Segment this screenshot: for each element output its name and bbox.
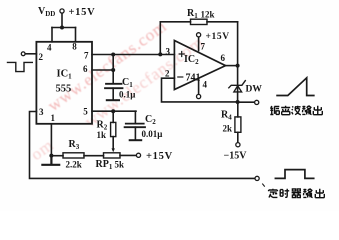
svg-text:4: 4 <box>203 80 208 90</box>
sawtooth output terminal <box>255 100 259 104</box>
sawtooth waveform symbol <box>277 78 314 96</box>
zener diode DW <box>229 81 246 92</box>
pin 4 terminal <box>197 94 201 98</box>
wire R1 left leg <box>159 22 161 55</box>
ground <box>42 156 59 165</box>
wire pin 4 of 741 <box>198 78 200 94</box>
node pin6 junction <box>111 68 115 72</box>
svg-text:+15V: +15V <box>69 7 96 18</box>
svg-text:2k: 2k <box>223 124 233 134</box>
capacitor C2 0.01u <box>125 111 145 140</box>
wire pin 5 <box>92 110 136 112</box>
svg-text:12k: 12k <box>201 10 215 20</box>
input terminal (trigger) <box>21 52 25 56</box>
wire R3 to RP1 <box>84 155 104 157</box>
wire R1 top left <box>160 21 190 23</box>
svg-text:4: 4 <box>47 43 52 53</box>
svg-text:3: 3 <box>166 47 171 57</box>
capacitor C1 0.1u <box>105 84 123 100</box>
resistor R1 12k <box>191 19 208 24</box>
node B junction (zener anode) <box>236 100 240 104</box>
wiper arrow of RP1 <box>112 137 115 153</box>
wire output node to zener <box>237 66 239 102</box>
wire VDD vertical <box>61 13 63 27</box>
negative pulse symbol (input waveform) <box>8 62 33 71</box>
wire pin 6 output <box>226 65 238 67</box>
svg-text:−15V: −15V <box>224 151 248 162</box>
wire junction to R3 <box>51 155 63 157</box>
svg-text:+15V: +15V <box>206 32 230 42</box>
svg-text:741: 741 <box>186 73 201 84</box>
resistor R2 1k <box>111 111 116 136</box>
-15V terminal <box>236 143 240 147</box>
+15V terminal (bottom) <box>136 153 140 157</box>
wire pin 7 to op-amp +input <box>92 54 174 56</box>
wire pin 2 input <box>25 53 36 55</box>
resistor R4 2k <box>235 102 241 142</box>
node pin1/R3 junction <box>49 154 53 158</box>
label sawtooth output (Chinese glyphs drawn as strokes) <box>270 106 322 115</box>
wire pin 6 <box>92 69 113 71</box>
wire pin 1 down <box>50 124 52 156</box>
wire pin 4 <box>51 28 53 42</box>
node pin5 junction <box>111 109 115 113</box>
svg-text:1k: 1k <box>97 130 107 140</box>
wire RP1 to +15V terminal <box>120 154 136 156</box>
svg-text:1: 1 <box>51 113 56 123</box>
node R1 tap on +input wire <box>158 52 162 56</box>
VDD terminal <box>60 9 64 13</box>
svg-text:5k: 5k <box>115 160 125 170</box>
svg-text:3: 3 <box>39 107 44 117</box>
svg-text:7: 7 <box>84 51 89 61</box>
+15V terminal (op-amp supply) <box>197 33 201 37</box>
svg-text:8: 8 <box>72 42 77 52</box>
pulse waveform symbol <box>275 170 313 179</box>
potentiometer RP1 5k body <box>104 153 121 158</box>
wire R1 right leg down to output node <box>237 22 239 66</box>
op-amp + sign <box>179 52 184 57</box>
wire pins 6-7 tie down to C1 <box>112 55 114 84</box>
resistor R3 2.2k <box>63 153 84 158</box>
IC1 555 timer box U1 <box>36 42 92 124</box>
wire pin 7 of 741 to +15V <box>198 37 200 51</box>
svg-text:DW: DW <box>246 85 263 95</box>
svg-text:2: 2 <box>39 52 44 62</box>
wire pin 3 output to bottom rail <box>30 112 256 179</box>
wire R1 top right <box>207 21 238 23</box>
wire pin4-pin8 bridge <box>52 27 76 29</box>
svg-text:5: 5 <box>83 107 88 117</box>
tick mark <box>263 184 265 186</box>
svg-text:+15V: +15V <box>146 151 173 162</box>
svg-text:6: 6 <box>83 64 88 74</box>
svg-text:0.1μ: 0.1μ <box>119 90 135 100</box>
node pin7/C1 junction <box>111 53 115 57</box>
svg-text:555: 555 <box>56 84 72 95</box>
op-amp - sign <box>178 76 183 78</box>
op-amp IC2 741 triangle <box>174 41 225 90</box>
node VDD junction <box>60 26 64 30</box>
svg-text:2.2k: 2.2k <box>66 160 82 170</box>
timer output terminal <box>255 176 259 180</box>
svg-text:0.01μ: 0.01μ <box>142 129 163 139</box>
node output junction <box>236 64 240 68</box>
wire pin 8 <box>75 28 77 42</box>
svg-text:7: 7 <box>201 42 206 52</box>
svg-text:2: 2 <box>165 69 170 79</box>
wire node B to sawtooth terminal <box>238 101 255 103</box>
label timer output (Chinese glyphs drawn as strokes) <box>269 189 325 198</box>
wire pin 2 feedback loop <box>162 78 238 102</box>
svg-text:6: 6 <box>221 53 226 63</box>
